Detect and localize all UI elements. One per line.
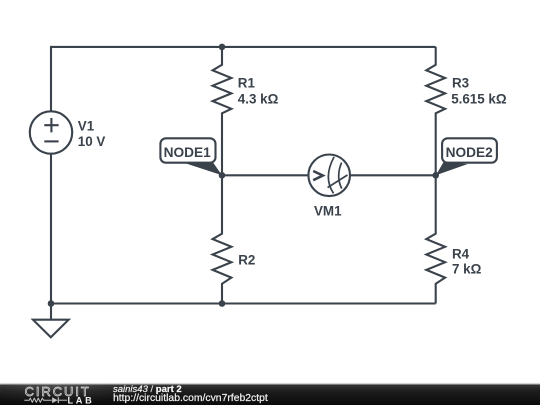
wire left vertical lower bbox=[50, 154, 52, 304]
svg-text:10 V: 10 V bbox=[78, 134, 106, 149]
logo waveform resistor bbox=[24, 398, 51, 402]
svg-text:R4: R4 bbox=[452, 247, 470, 262]
svg-text:VM1: VM1 bbox=[314, 204, 342, 219]
voltmeter VM1 bbox=[308, 155, 350, 197]
wire middle right bbox=[350, 174, 436, 176]
node NODE2 pointer bbox=[436, 162, 468, 176]
junction node top bbox=[219, 44, 226, 51]
svg-text:5.615 kΩ: 5.615 kΩ bbox=[451, 92, 507, 107]
svg-text:http://circuitlab.com/cvn7rfeb: http://circuitlab.com/cvn7rfeb2ctpt bbox=[113, 393, 268, 404]
wire middle left bbox=[222, 174, 309, 176]
svg-text:LAB: LAB bbox=[68, 395, 95, 405]
wire bottom horizontal bbox=[51, 302, 436, 304]
svg-text:7 kΩ: 7 kΩ bbox=[452, 262, 482, 277]
label R4 value bbox=[452, 247, 482, 277]
node NODE1 junction bbox=[219, 172, 226, 179]
node NODE2 label bbox=[442, 138, 497, 162]
svg-text:R3: R3 bbox=[452, 76, 469, 91]
svg-text:NODE1: NODE1 bbox=[164, 145, 212, 160]
wire top horizontal bbox=[51, 46, 436, 48]
resistor R2 bbox=[213, 175, 232, 303]
node NODE1 label bbox=[160, 138, 215, 162]
label V1 value bbox=[78, 118, 106, 149]
label R1 value bbox=[238, 75, 279, 106]
junction node bottom bbox=[219, 300, 226, 307]
node NODE2 junction bbox=[432, 172, 439, 179]
svg-text:4.3 kΩ: 4.3 kΩ bbox=[238, 91, 279, 106]
voltage source V1 bbox=[30, 111, 72, 153]
resistor R3 bbox=[426, 47, 445, 175]
node NODE1 pointer bbox=[184, 163, 222, 176]
svg-text:NODE2: NODE2 bbox=[446, 145, 494, 160]
ground bbox=[33, 304, 69, 338]
footer bar bbox=[0, 384, 540, 386]
junction node ground bbox=[48, 300, 55, 307]
logo diode bbox=[52, 397, 58, 403]
svg-text:R1: R1 bbox=[238, 75, 256, 90]
label R3 value bbox=[451, 76, 507, 107]
resistor R4 bbox=[426, 175, 445, 303]
resistor R1 bbox=[213, 47, 232, 175]
svg-text:V1: V1 bbox=[78, 118, 95, 133]
svg-text:R2: R2 bbox=[238, 253, 255, 268]
wire left vertical upper bbox=[50, 46, 52, 112]
